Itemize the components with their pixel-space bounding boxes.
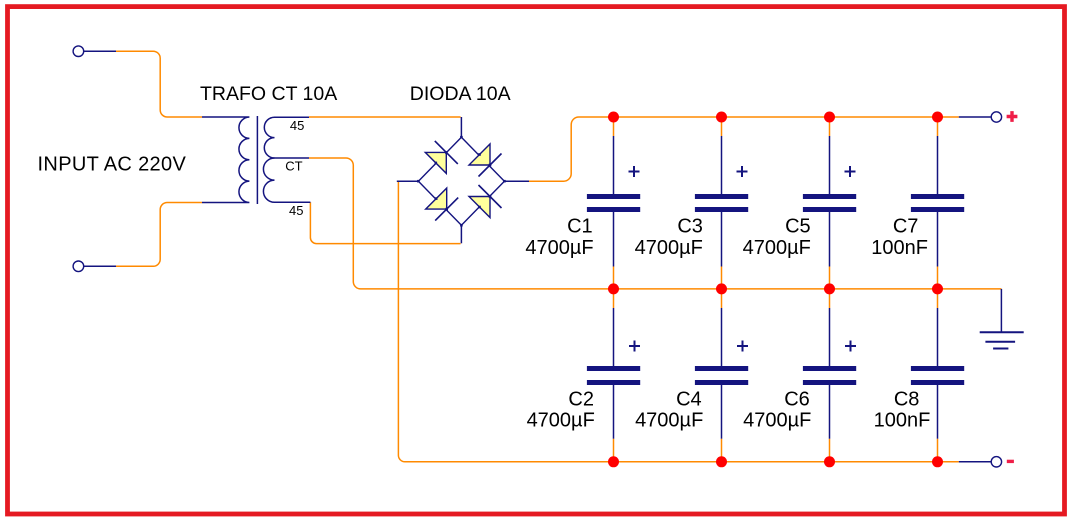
svg-text:C5: C5	[785, 215, 811, 237]
svg-text:INPUT AC 220V: INPUT AC 220V	[38, 153, 187, 175]
svg-text:C4: C4	[676, 388, 702, 410]
svg-text:100nF: 100nF	[871, 237, 928, 259]
svg-text:C8: C8	[894, 388, 920, 410]
svg-text:4700µF: 4700µF	[635, 237, 703, 259]
svg-text:45: 45	[289, 203, 303, 218]
svg-text:100nF: 100nF	[874, 409, 931, 431]
svg-text:C7: C7	[893, 215, 919, 237]
svg-text:C2: C2	[568, 388, 594, 410]
svg-text:C6: C6	[784, 388, 810, 410]
svg-text:45: 45	[290, 118, 304, 133]
svg-text:4700µF: 4700µF	[525, 237, 593, 259]
svg-text:4700µF: 4700µF	[743, 409, 811, 431]
svg-text:4700µF: 4700µF	[527, 409, 595, 431]
svg-text:TRAFO CT 10A: TRAFO CT 10A	[200, 83, 337, 105]
svg-text:4700µF: 4700µF	[635, 409, 703, 431]
svg-text:C3: C3	[677, 215, 703, 237]
svg-text:C1: C1	[567, 215, 593, 237]
svg-text:DIODA 10A: DIODA 10A	[410, 83, 511, 105]
svg-text:4700µF: 4700µF	[743, 237, 811, 259]
svg-text:CT: CT	[285, 159, 302, 174]
